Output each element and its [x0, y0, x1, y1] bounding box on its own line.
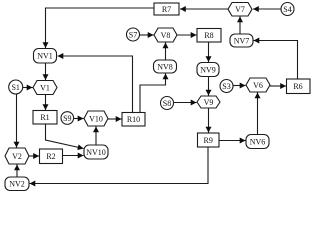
wire NV9->V9 [208, 77, 210, 96]
node V10 [84, 111, 108, 126]
svg-text:S4: S4 [283, 5, 291, 14]
wire R9->NV2 [30, 147, 209, 184]
svg-text:V6: V6 [253, 81, 263, 90]
wire S8->V9 [174, 102, 197, 104]
wire S1->V1 [23, 87, 33, 89]
svg-text:V1: V1 [40, 84, 50, 93]
svg-text:NV9: NV9 [200, 66, 216, 75]
svg-text:V9: V9 [204, 98, 214, 107]
svg-text:S1: S1 [11, 83, 19, 92]
wire NV10->V10 [95, 127, 97, 146]
wire NV6->V6 [257, 93, 259, 135]
svg-text:V2: V2 [12, 152, 22, 161]
wire S3->V6 [234, 85, 246, 87]
svg-text:R2: R2 [46, 152, 55, 161]
wire V1->R1 [45, 95, 47, 111]
wire V2->R2 [29, 155, 39, 157]
svg-text:S9: S9 [63, 114, 71, 123]
wire V7->R7 [180, 8, 228, 10]
node NV9 [197, 63, 219, 77]
svg-text:R10: R10 [127, 115, 140, 124]
svg-text:R1: R1 [40, 113, 49, 122]
wire NV7->V7 [239, 17, 241, 35]
node R6 [287, 79, 311, 94]
node S1 [9, 80, 23, 94]
svg-text:R6: R6 [293, 82, 302, 91]
node S3 [220, 80, 233, 93]
node NV1 [34, 49, 57, 64]
wire R2->NV10 [63, 155, 84, 157]
wire V6->R6 [270, 85, 286, 87]
wire V9->R9 [208, 108, 210, 133]
wire R10->NV8 [140, 74, 166, 113]
wire R1->NV10 [46, 124, 84, 149]
node R10 [122, 113, 145, 127]
svg-text:V8: V8 [161, 31, 171, 40]
node NV2 [5, 177, 29, 191]
wire R7->NV1 [46, 8, 155, 48]
node V9 [197, 96, 220, 108]
node R7 [154, 3, 179, 15]
node NV7 [230, 34, 253, 47]
wire S4->V7 [253, 8, 281, 10]
node V7 [228, 3, 252, 17]
node NV10 [84, 145, 108, 159]
node S4 [281, 3, 294, 16]
wire V10->R10 [108, 118, 122, 120]
node S8 [161, 97, 174, 110]
node V8 [154, 28, 177, 42]
node V6 [246, 78, 270, 92]
node R2 [40, 149, 63, 164]
svg-text:NV2: NV2 [9, 180, 25, 189]
wire R8->NV9 [208, 42, 210, 62]
wire S9->V10 [74, 118, 84, 120]
svg-text:S8: S8 [163, 99, 171, 108]
node NV8 [154, 60, 177, 73]
svg-text:S7: S7 [129, 31, 137, 40]
wire R6->NV7 [254, 41, 298, 80]
svg-text:S3: S3 [222, 82, 230, 91]
node R8 [197, 29, 221, 43]
svg-text:R9: R9 [204, 136, 213, 145]
node R1 [33, 111, 57, 125]
svg-text:NV1: NV1 [37, 52, 53, 61]
wire NV8->V8 [165, 43, 167, 61]
svg-text:NV10: NV10 [86, 148, 106, 157]
node S9 [61, 112, 74, 125]
svg-text:NV6: NV6 [250, 138, 266, 147]
svg-text:R8: R8 [204, 31, 213, 40]
wire NV1->V1 [45, 63, 47, 80]
wire NV2->V2 [16, 165, 18, 178]
wire S1->V2 [16, 94, 18, 148]
wire R10->NV1 [58, 56, 133, 113]
wire S7->V8 [140, 34, 154, 36]
svg-text:V7: V7 [235, 5, 245, 14]
wire R9->NV6 [219, 140, 246, 142]
svg-text:V10: V10 [89, 115, 103, 124]
node R9 [198, 133, 220, 147]
node V1 [33, 81, 57, 95]
svg-text:NV7: NV7 [234, 37, 250, 46]
svg-text:NV8: NV8 [157, 63, 173, 72]
svg-text:R7: R7 [162, 5, 171, 14]
node NV6 [246, 135, 269, 149]
node V2 [5, 148, 29, 164]
wire V8->R8 [177, 34, 197, 36]
node S7 [127, 28, 140, 41]
